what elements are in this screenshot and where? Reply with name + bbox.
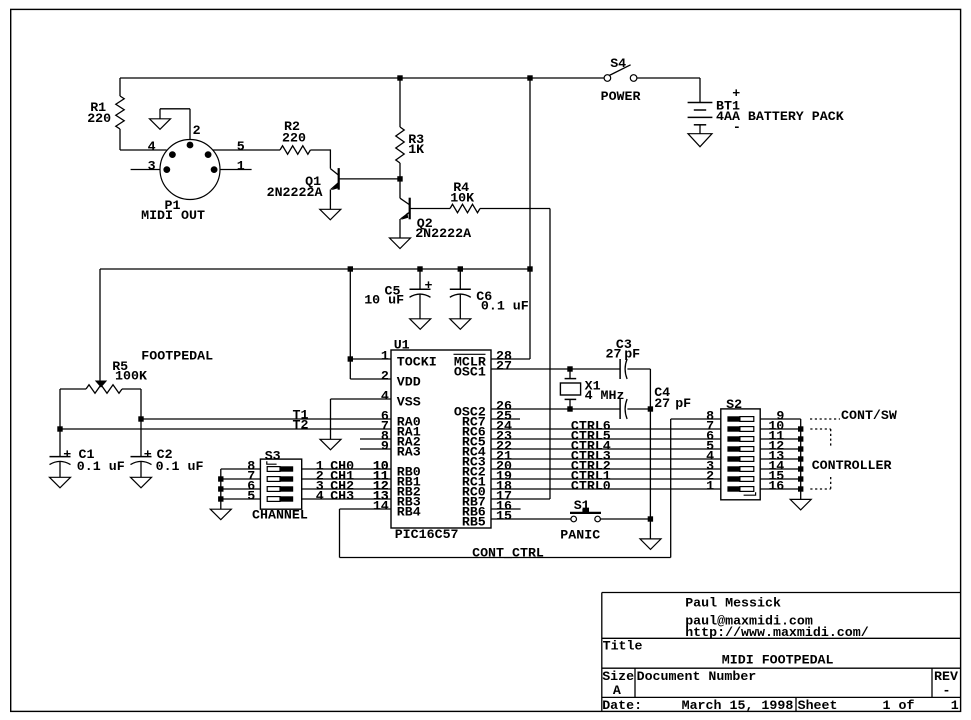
svg-text:27: 27: [654, 396, 670, 411]
svg-text:T2: T2: [293, 418, 309, 433]
svg-text:1: 1: [706, 479, 714, 494]
svg-text:9: 9: [381, 439, 389, 454]
svg-text:POWER: POWER: [601, 89, 641, 104]
svg-text:Paul Messick: Paul Messick: [685, 596, 781, 611]
svg-text:CH3: CH3: [330, 489, 354, 504]
svg-text:FOOTPEDAL: FOOTPEDAL: [141, 349, 213, 364]
svg-text:pF: pF: [675, 396, 691, 411]
svg-text:1 of: 1 of: [883, 698, 915, 713]
svg-text:+: +: [425, 278, 433, 293]
svg-text:OSC1: OSC1: [454, 364, 486, 379]
svg-text:13: 13: [373, 489, 389, 504]
svg-text:S3: S3: [265, 449, 281, 464]
svg-text:1: 1: [237, 159, 245, 174]
svg-text:0.1 uF: 0.1 uF: [77, 459, 125, 474]
svg-text:MIDI FOOTPEDAL: MIDI FOOTPEDAL: [722, 652, 834, 667]
svg-text:10 uF: 10 uF: [364, 293, 404, 308]
svg-text:REV: REV: [934, 669, 958, 684]
svg-text:MIDI OUT: MIDI OUT: [141, 208, 205, 223]
svg-text:4: 4: [148, 139, 156, 154]
svg-text:5: 5: [247, 489, 255, 504]
svg-text:1: 1: [381, 349, 389, 364]
svg-text:VDD: VDD: [397, 374, 421, 389]
svg-text:27: 27: [606, 347, 622, 362]
svg-text:VSS: VSS: [397, 394, 421, 409]
svg-text:TOCKI: TOCKI: [397, 354, 437, 369]
svg-text:RA3: RA3: [397, 444, 421, 459]
svg-text:Size: Size: [602, 669, 634, 684]
svg-text:A: A: [613, 683, 621, 698]
svg-text:Sheet: Sheet: [798, 698, 838, 713]
svg-text:+: +: [63, 447, 71, 462]
svg-text:0.1 uF: 0.1 uF: [156, 459, 204, 474]
svg-text:2N2222A: 2N2222A: [267, 185, 323, 200]
svg-text:100K: 100K: [115, 368, 147, 383]
svg-text:CONT/SW: CONT/SW: [841, 408, 897, 423]
svg-text:0.1 uF: 0.1 uF: [481, 298, 529, 313]
svg-text:1K: 1K: [408, 142, 424, 157]
svg-text:16: 16: [768, 479, 784, 494]
svg-text:RB4: RB4: [397, 504, 421, 519]
svg-text:-: -: [943, 683, 951, 698]
svg-text:http://www.maxmidi.com/: http://www.maxmidi.com/: [685, 625, 869, 640]
svg-text:S4: S4: [610, 56, 626, 71]
svg-text:PANIC: PANIC: [560, 527, 600, 542]
svg-text:1: 1: [951, 698, 959, 713]
svg-text:2N2222A: 2N2222A: [415, 226, 471, 241]
svg-text:CONTROLLER: CONTROLLER: [812, 458, 892, 473]
svg-text:-: -: [733, 120, 741, 135]
svg-text:4: 4: [316, 489, 324, 504]
svg-text:CHANNEL: CHANNEL: [252, 508, 308, 523]
svg-text:+: +: [144, 447, 152, 462]
svg-text:4 MHz: 4 MHz: [585, 388, 625, 403]
svg-text:27: 27: [496, 359, 512, 374]
svg-text:220: 220: [87, 111, 111, 126]
svg-text:3: 3: [148, 159, 156, 174]
svg-text:10K: 10K: [450, 191, 474, 206]
svg-text:15: 15: [496, 509, 512, 524]
svg-text:S2: S2: [726, 397, 742, 412]
svg-text:RB5: RB5: [462, 514, 486, 529]
svg-text:pF: pF: [624, 347, 640, 362]
svg-text:220: 220: [282, 131, 306, 146]
svg-text:Document Number: Document Number: [637, 669, 757, 684]
svg-text:Title: Title: [603, 639, 643, 654]
svg-text:CTRL0: CTRL0: [571, 479, 611, 494]
svg-text:PIC16C57: PIC16C57: [395, 527, 459, 542]
svg-text:5: 5: [237, 139, 245, 154]
svg-text:CONT_CTRL: CONT_CTRL: [472, 546, 544, 561]
svg-text:U1: U1: [394, 338, 410, 353]
svg-text:4: 4: [381, 389, 389, 404]
svg-text:S1: S1: [574, 498, 590, 513]
svg-text:March 15, 1998: March 15, 1998: [682, 698, 794, 713]
svg-text:Date:: Date:: [602, 698, 642, 713]
svg-text:2: 2: [381, 369, 389, 384]
svg-text:2: 2: [193, 123, 201, 138]
